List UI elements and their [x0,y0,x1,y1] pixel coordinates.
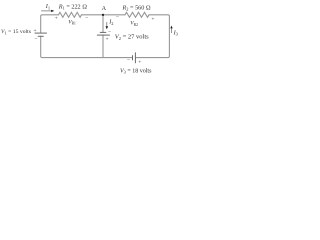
svg-text:+: + [151,17,154,23]
svg-text:−: − [127,57,130,63]
battery V1 long plate [35,32,47,34]
svg-text:V3 = 18 volts: V3 = 18 volts [120,68,152,74]
wire top middle segment [82,14,126,16]
current arrow I1 [41,10,54,12]
svg-text:A: A [102,5,107,12]
battery V1 short plate [38,35,44,37]
resistor R1 [59,12,82,17]
wire middle branch upper [102,15,104,33]
svg-text:−: − [34,37,37,43]
svg-text:−: − [108,29,111,35]
wire middle branch lower [102,35,104,58]
battery V2 short plate [100,31,106,33]
svg-text:I2: I2 [108,19,113,26]
wire top left segment [41,15,59,33]
resistor R2 [125,12,149,17]
svg-text:I1: I1 [45,3,50,10]
wire bottom left segment [41,36,133,57]
svg-text:V1 = 15 volts: V1 = 15 volts [1,29,32,35]
svg-text:−: − [85,16,88,22]
svg-text:V2 = 27 volts: V2 = 27 volts [115,34,149,41]
battery V2 long plate [97,34,110,36]
svg-text:VR2: VR2 [130,21,138,27]
current arrow I2 [106,22,109,29]
svg-text:+: + [138,60,141,66]
svg-text:VR1: VR1 [68,19,76,25]
svg-text:+: + [55,15,58,21]
svg-text:R1 = 222 Ω: R1 = 222 Ω [58,3,87,10]
node A junction dot [102,14,104,16]
svg-text:+: + [106,36,109,42]
battery V3 short plate [132,55,134,60]
svg-text:I3: I3 [173,29,179,36]
wire top right segment and right rail [136,15,170,58]
svg-text:+: + [34,28,37,34]
svg-text:−: − [116,14,119,20]
svg-text:R2 = 560 Ω: R2 = 560 Ω [122,4,151,11]
current arrow I3 [170,26,172,33]
battery V3 long plate [134,52,136,63]
